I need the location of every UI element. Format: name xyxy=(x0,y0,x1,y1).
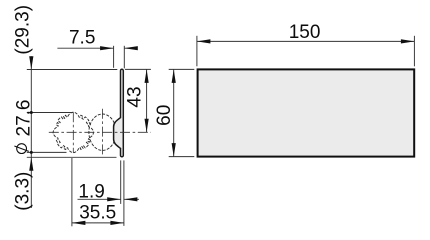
arrow right to bump front xyxy=(100,46,114,50)
arrow left to plate back xyxy=(124,46,138,50)
ext line knob center xyxy=(71,158,73,226)
svg-text:7.5: 7.5 xyxy=(69,28,95,49)
dot knob top xyxy=(30,111,33,114)
center line horizontal xyxy=(49,131,151,133)
arrow up xyxy=(145,69,149,83)
ext line bottom xyxy=(169,156,195,158)
ext line plate bottom left xyxy=(27,156,117,158)
diameter symbol xyxy=(17,144,27,154)
arrow up to plate bottom xyxy=(29,157,33,171)
ext line left xyxy=(196,36,198,67)
dim line 1.9 xyxy=(78,198,140,200)
arrow up xyxy=(172,69,176,83)
center line knob vertical xyxy=(72,112,74,153)
arrow down to plate top xyxy=(29,56,33,69)
svg-text:1.9: 1.9 xyxy=(78,182,104,203)
ext line plate back top xyxy=(123,46,125,69)
washer ellipse (hidden outline) xyxy=(89,114,116,150)
svg-text:(3.3): (3.3) xyxy=(13,172,34,211)
svg-text:(29.3): (29.3) xyxy=(13,5,34,55)
ext line plate top right xyxy=(125,68,151,70)
ext line knob top xyxy=(27,112,74,114)
knob star (hidden outline) xyxy=(53,112,93,152)
dot knob bottom xyxy=(30,151,33,154)
dim line 35.5 xyxy=(72,222,124,224)
arrow left end xyxy=(197,39,211,43)
ext line knob bottom xyxy=(27,151,67,153)
dim line column xyxy=(30,56,32,208)
plate profile xyxy=(114,69,124,157)
ext line bump front xyxy=(113,46,115,68)
svg-text:150: 150 xyxy=(289,22,321,43)
dim line 60 xyxy=(173,69,175,156)
svg-text:27.6: 27.6 xyxy=(14,100,35,137)
svg-text:60: 60 xyxy=(154,105,175,126)
ext line plate back bottom xyxy=(123,160,125,226)
bar face xyxy=(198,69,415,156)
dim line 7.5 xyxy=(57,47,135,49)
arrow right end xyxy=(401,39,415,43)
arrow left xyxy=(124,197,137,201)
arrow right xyxy=(107,197,121,201)
dim line 43 xyxy=(146,69,148,132)
arrow right end xyxy=(110,221,124,225)
arrow down xyxy=(145,119,149,133)
arrow down xyxy=(172,143,176,157)
ext line plate front bottom xyxy=(120,160,122,204)
ext line right xyxy=(413,36,415,67)
dim line 150 xyxy=(197,40,415,42)
arrow left end xyxy=(72,221,86,225)
svg-text:43: 43 xyxy=(125,86,146,107)
svg-text:35.5: 35.5 xyxy=(79,202,116,223)
ext line plate top left xyxy=(27,69,118,71)
center line washer vertical xyxy=(102,109,104,156)
ext line top xyxy=(169,68,195,70)
